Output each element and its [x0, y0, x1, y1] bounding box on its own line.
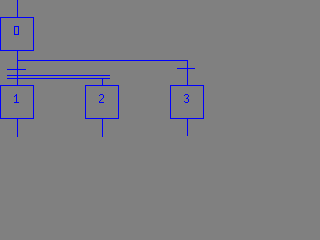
transition bar T2 (right branch, y=68, x=177..194): [177, 68, 195, 69]
step box 3: [170, 85, 204, 119]
wire: right branch vertical drop to step 3 (x=187, y=61..84): [187, 61, 188, 85]
wire: from step 0 down to step 1 (x=17, y=51..84): [17, 51, 18, 85]
label 3 (step number): [184, 94, 189, 103]
wire: input wire above step 0 (x=17, y=0..16): [17, 0, 18, 17]
parallel divergence double line, lower (y=78, x=7..109): [7, 78, 110, 79]
wire: output below step 2 (x=102, y=119..136): [102, 119, 103, 137]
step box 0: [0, 17, 34, 51]
wire: drop to step 2 (x=102, y=79..84): [102, 79, 103, 85]
label 1 (step number): [14, 94, 19, 103]
wire: output below step 3 (x=187, y=119..135): [187, 119, 188, 136]
parallel divergence double line, upper (y=75, x=7..109): [7, 75, 110, 76]
wire: output below step 1 (x=17, y=119..136): [17, 119, 18, 137]
step box 1: [0, 85, 34, 119]
step box 2: [85, 85, 119, 119]
transition bar T1 (left branch, y=69, x=7..25): [7, 69, 26, 70]
wire: selection branch horizontal line (y=60, x=17..187): [17, 60, 188, 61]
label 0 (step number): [14, 26, 19, 35]
label 2 (step number): [99, 94, 104, 103]
